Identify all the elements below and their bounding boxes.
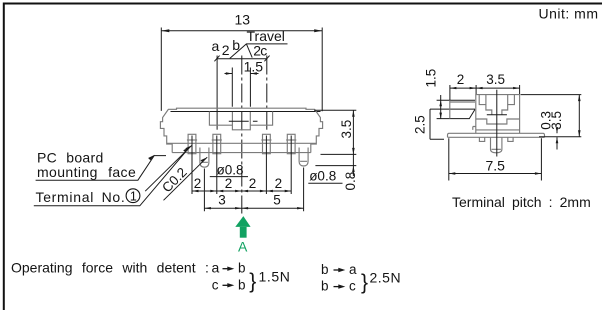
dimension 0.3: [539, 111, 554, 130]
svg-text:Unit: mm: Unit: mm: [539, 6, 599, 22]
svg-text:3: 3: [218, 192, 226, 207]
dimension 3.5 right ext lines: [314, 110, 356, 165]
circled 1: [126, 189, 140, 203]
travel leader legs: [230, 44, 252, 59]
dimension 2.5 (side, rotated): [413, 115, 428, 134]
body right profile: [311, 109, 323, 153]
svg-text:1.5N: 1.5N: [259, 268, 291, 284]
svg-text:1.5: 1.5: [423, 69, 438, 88]
travel dim line: [216, 58, 266, 60]
dimension 7.5: [449, 138, 542, 180]
2.5 dim bracket: [430, 109, 444, 139]
svg-text:2: 2: [222, 42, 230, 58]
c centerline (dash-dot): [266, 56, 268, 130]
svg-text:2: 2: [457, 72, 465, 87]
oblique tick a: [214, 56, 219, 62]
side peg: [491, 137, 502, 153]
svg-text:}: }: [361, 271, 368, 294]
dimension 3.5 (side right): [549, 111, 564, 130]
dimension 0.8 line: [352, 154, 354, 176]
svg-text:Terminal No.: Terminal No.: [36, 189, 126, 205]
svg-text:b: b: [238, 261, 246, 276]
svg-text:b: b: [321, 278, 329, 293]
side top-right notch: [508, 95, 515, 105]
svg-text:b: b: [232, 37, 240, 53]
svg-text:2: 2: [194, 176, 202, 191]
side centreline: [496, 90, 498, 157]
dimension 3.5 line: [352, 110, 354, 154]
side centre bar: [487, 114, 507, 116]
svg-text:3.5: 3.5: [549, 111, 564, 130]
svg-text:2: 2: [249, 176, 257, 191]
dimension 3.5 text (rotated): [339, 120, 354, 139]
svg-text:2.5N: 2.5N: [370, 269, 402, 285]
svg-text:c: c: [212, 277, 219, 292]
body top outer line: [169, 108, 315, 109]
side slot right: [502, 105, 508, 115]
side base bottom: [476, 129, 520, 131]
side small left stub: [473, 127, 476, 130]
terminal 1: [187, 134, 197, 153]
peg ext lines: [204, 168, 303, 212]
dimension 2 / 3.5 top line: [450, 87, 520, 89]
C0.2 leader 1: [145, 145, 192, 191]
dimension 1.5 line with outside arrows: [225, 73, 259, 75]
svg-text:b: b: [321, 262, 329, 277]
terminal 2: [212, 134, 222, 153]
svg-text:mounting face: mounting face: [37, 164, 136, 180]
dimension row 2,2,2,2 line: [192, 190, 291, 192]
side top-left notch: [479, 95, 486, 105]
knob stem: [232, 112, 250, 130]
svg-text:ø0.8: ø0.8: [309, 168, 336, 183]
terminal wings: [448, 133, 545, 137]
svg-text:c: c: [349, 278, 356, 293]
terminal ext lines: [192, 136, 291, 195]
svg-text:3.5: 3.5: [486, 72, 505, 87]
svg-text:2: 2: [225, 176, 233, 191]
svg-text:a: a: [212, 260, 220, 276]
border frame top: [3, 3, 602, 5]
svg-text:a: a: [212, 38, 220, 54]
dimension 13 ext lines: [161, 28, 322, 112]
svg-text:Travel: Travel: [247, 28, 285, 44]
dimension row 3,5 line: [204, 207, 303, 209]
body top inner line: [171, 111, 321, 113]
knob centre bar: [229, 120, 258, 122]
body bottom line: [167, 142, 317, 144]
wing stubs: [479, 137, 513, 141]
dimension 1.5 (side, rotated): [423, 69, 438, 88]
index arrow A (green): [235, 216, 250, 227]
side slot left: [486, 105, 492, 115]
svg-text:5: 5: [273, 192, 281, 207]
terminal 4: [286, 134, 296, 153]
dimension 13 line: [161, 30, 322, 32]
arrows in note row1: [223, 268, 232, 270]
top dim ext lines: [450, 85, 520, 100]
svg-text:2: 2: [275, 176, 283, 191]
svg-text:2.5: 2.5: [413, 115, 428, 134]
locating peg left: [200, 148, 209, 168]
oblique tick c: [264, 56, 269, 62]
svg-text:1: 1: [130, 190, 137, 204]
C0.2 leader 2: [164, 157, 208, 200]
body base bottom: [172, 152, 311, 154]
svg-text:1.5: 1.5: [244, 59, 264, 75]
svg-text:7.5: 7.5: [486, 158, 506, 174]
svg-text:c: c: [260, 43, 267, 59]
locating peg right: [299, 148, 308, 167]
svg-text:13: 13: [235, 12, 251, 28]
svg-text:0.8: 0.8: [343, 172, 358, 191]
dimension 0.8 text (rotated): [343, 172, 358, 191]
side body outline: [476, 95, 520, 133]
row ticks arrows: [192, 190, 199, 192]
terminal 3: [261, 134, 271, 153]
dimension 1.5 ext lines: [232, 68, 250, 107]
svg-text:Terminal pitch : 2mm: Terminal pitch : 2mm: [452, 194, 591, 210]
side lower steps: [476, 119, 520, 124]
a extension line: [216, 56, 218, 130]
b centerline (dash-dot): [241, 56, 243, 214]
body left profile: [160, 109, 172, 153]
svg-text:A: A: [238, 238, 248, 254]
knob flange: [209, 112, 272, 126]
svg-text:3.5: 3.5: [339, 120, 354, 139]
svg-text:a: a: [349, 262, 357, 277]
border frame left: [3, 3, 5, 310]
chamfer C0.2 label: [159, 165, 190, 196]
svg-text:Operating force with detent :: Operating force with detent :: [11, 260, 209, 276]
PCB face leader: [36, 156, 166, 181]
svg-text:}: }: [249, 270, 256, 293]
terminal no leader: [34, 148, 189, 206]
1.5 dim line: [440, 95, 442, 119]
svg-text:b: b: [238, 277, 246, 292]
side knob lever: [430, 100, 475, 118]
